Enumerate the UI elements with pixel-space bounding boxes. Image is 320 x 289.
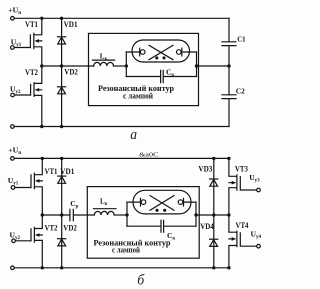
lamp electrode right b	[178, 198, 196, 206]
svg-text:VD1: VD1	[60, 167, 74, 176]
node C divider a	[227, 64, 230, 67]
terminal Uy3	[257, 188, 261, 192]
lamp dot right a	[162, 56, 165, 59]
svg-text:Cр: Cр	[70, 199, 78, 210]
wire node A vertical b	[126, 202, 128, 226]
node VT4 source	[227, 266, 230, 269]
wire node B to C-divider a	[197, 65, 230, 67]
inductor Lk a core	[93, 59, 115, 61]
terminal +Un a	[11, 17, 15, 21]
wire top rail b	[14, 157, 229, 159]
wire Ck left b	[127, 225, 161, 227]
diode VD1 b	[58, 158, 66, 215]
svg-text:VT2: VT2	[45, 223, 58, 232]
svg-text:VT2: VT2	[25, 68, 38, 77]
svg-text:C2: C2	[236, 87, 245, 96]
capacitor C2	[222, 95, 236, 99]
wire right vertical a upper	[228, 18, 230, 42]
node A b	[125, 213, 128, 216]
node VD mid b	[60, 213, 63, 216]
node B b	[194, 213, 197, 216]
svg-text:VT1: VT1	[45, 167, 58, 176]
node VT3 VT4 mid	[227, 213, 230, 216]
box resonant circuit b	[87, 187, 199, 259]
node VT2 source a	[40, 125, 43, 128]
wire bottom rail b	[14, 267, 229, 269]
wire inductor to node A	[114, 65, 127, 67]
svg-text:VT4: VT4	[236, 221, 250, 230]
lamp dot right b	[163, 209, 166, 212]
svg-text:VT1: VT1	[25, 20, 38, 29]
svg-text:Cк: Cк	[166, 68, 174, 79]
svg-text:Lк: Lк	[100, 53, 108, 62]
lamp dot left a	[155, 56, 158, 59]
node VT1 drain b	[41, 157, 44, 160]
node A a	[125, 64, 128, 67]
svg-text:VD3: VD3	[198, 165, 212, 174]
inductor Lk b coil	[94, 211, 114, 215]
lamp tube b	[133, 190, 191, 214]
capacitor Ck b	[161, 220, 164, 232]
svg-text:VD2: VD2	[63, 223, 77, 232]
wire top rail a	[14, 17, 229, 19]
svg-text:+Uп: +Uп	[8, 146, 21, 157]
wire bottom rail a	[14, 126, 229, 128]
svg-text:Uу2: Uу2	[10, 85, 21, 96]
terminal bottom a	[11, 125, 15, 129]
wire node B to right b	[196, 214, 229, 216]
node VT1 drain a	[40, 17, 43, 20]
diode VD1	[58, 18, 66, 66]
node VT2 source b	[41, 266, 44, 269]
capacitor Ck a	[161, 70, 164, 82]
svg-text:VD1: VD1	[64, 20, 78, 29]
node VD3 top	[212, 157, 215, 160]
lamp gas cross a	[149, 45, 173, 59]
node half-bridge mid a	[40, 64, 43, 67]
transistor VT2	[15, 66, 42, 127]
wire node to C2	[228, 66, 230, 95]
wire node B vertical a	[196, 52, 198, 77]
wire mid rail b left	[42, 214, 69, 216]
lamp electrode left b	[127, 198, 146, 206]
wire between C1 and node	[228, 46, 230, 66]
lamp electrode right a	[177, 48, 197, 56]
svg-text:Uу1: Uу1	[11, 37, 22, 48]
lamp dot left b	[155, 209, 158, 212]
svg-text:с лампой: с лампой	[123, 91, 153, 100]
transistor VT2 b	[15, 215, 42, 268]
wire C2 to bottom rail	[228, 99, 230, 127]
terminal Uy4	[257, 244, 261, 248]
node VD2 bottom a	[60, 125, 63, 128]
terminal Uy1 a	[11, 46, 15, 50]
lamp gas cross b	[150, 196, 174, 211]
node VT3 drain	[227, 157, 230, 160]
svg-text:&a0C: &a0C	[139, 153, 159, 159]
diode VD4	[210, 215, 218, 268]
inductor Lk b core	[94, 208, 117, 210]
wire mid rail a left	[42, 65, 94, 67]
node VD2 bottom b	[60, 266, 63, 269]
wire inductor to node A b	[114, 214, 127, 216]
box resonant circuit a	[89, 33, 199, 105]
node VD1 top b	[60, 157, 63, 160]
wire Ck right a	[164, 76, 197, 78]
svg-text:с лампой: с лампой	[112, 246, 140, 255]
terminal bottom b	[11, 266, 15, 270]
terminal Uy2 a	[11, 93, 15, 97]
wire Ck right b	[164, 225, 196, 227]
svg-text:VT3: VT3	[235, 165, 248, 174]
diode VD3	[210, 158, 218, 215]
diode VD2	[58, 66, 66, 127]
capacitor C1	[222, 42, 236, 46]
wire Cp to inductor	[74, 214, 94, 216]
inductor Lk a coil	[94, 62, 114, 66]
svg-text:VD2: VD2	[64, 68, 78, 77]
terminal Uy1 b	[11, 186, 15, 190]
transistor VT1	[14, 18, 42, 66]
capacitor Cp	[70, 209, 73, 220]
svg-text:Uу4: Uу4	[251, 229, 262, 240]
terminal +Un b	[11, 157, 15, 161]
terminal Uy2 b	[12, 239, 16, 243]
junction dots b	[41, 157, 231, 270]
svg-text:б: б	[137, 273, 145, 289]
transistor VT3	[229, 158, 257, 215]
svg-text:Lк: Lк	[100, 198, 108, 207]
wire node A vertical a	[125, 52, 127, 77]
node VD4 bottom	[212, 266, 215, 269]
node left mid b	[41, 213, 44, 216]
CIRCUIT_B	[11, 157, 261, 270]
junction dots a	[40, 17, 231, 129]
wire node B vertical b	[195, 202, 197, 226]
diode VD2 b	[58, 215, 66, 268]
lamp electrode left a	[126, 48, 145, 56]
svg-text:Uу1: Uу1	[8, 176, 19, 187]
lamp tube a	[132, 40, 190, 62]
node VD1 top a	[60, 17, 63, 20]
node B a	[195, 64, 198, 67]
transistor VT4	[229, 215, 257, 268]
node VD3 VD4 mid	[212, 213, 215, 216]
node VD mid a	[60, 64, 63, 67]
transistor VT1 b	[15, 158, 42, 215]
svg-text:а: а	[130, 127, 137, 143]
svg-text:+Uп: +Uп	[8, 6, 21, 17]
svg-text:C1: C1	[237, 34, 245, 43]
wire Ck left a	[126, 76, 160, 78]
svg-text:VD4: VD4	[200, 222, 214, 231]
svg-text:Uу3: Uу3	[249, 173, 260, 184]
svg-text:Uу2: Uу2	[10, 230, 21, 241]
